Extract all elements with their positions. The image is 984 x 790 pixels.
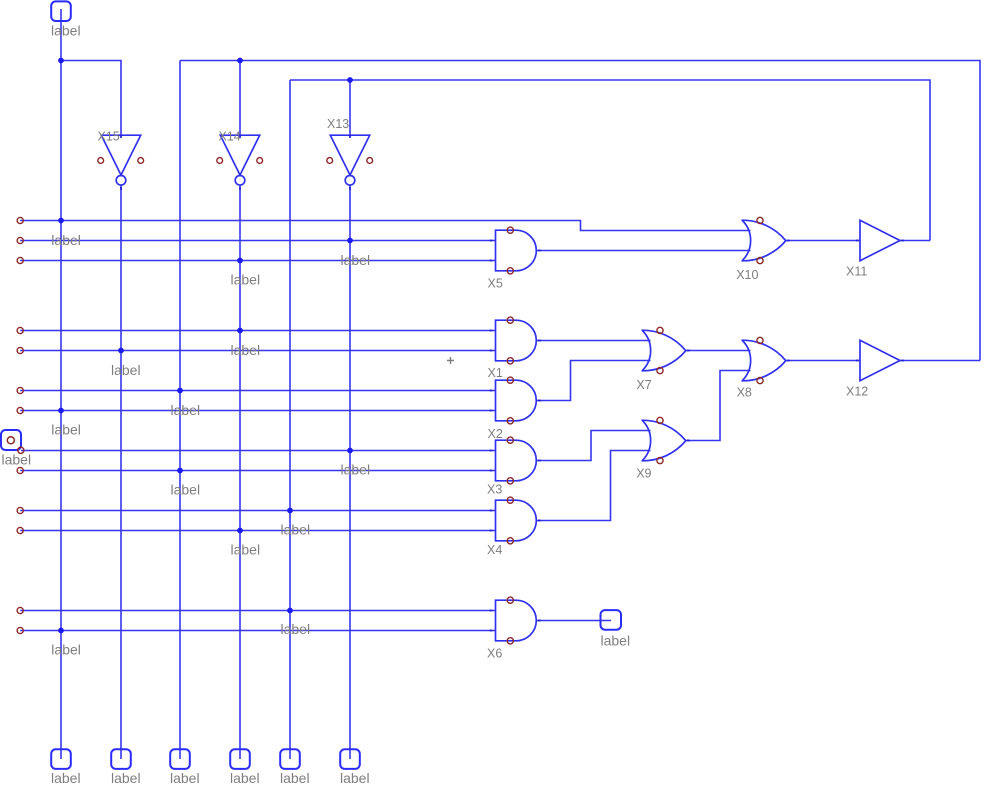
AND gate X3 <box>490 437 541 484</box>
svg-text:label: label <box>230 770 260 786</box>
wire net7 (y=410.5) to X2 input 2 <box>20 410 496 412</box>
svg-text:label: label <box>171 482 201 498</box>
wire X4 output to X9 lower input <box>537 451 651 521</box>
wire column F upper (x=350 into X13) <box>349 80 351 135</box>
AND gate X1 <box>490 317 541 364</box>
wire X5 output to X10 lower input <box>537 250 751 252</box>
junction node (240,530) <box>237 528 243 534</box>
wire second feedback rail (y=80) <box>290 80 930 241</box>
svg-text:label: label <box>231 542 261 558</box>
svg-text:label: label <box>281 522 311 538</box>
svg-text:label: label <box>231 272 261 288</box>
wire net5 (y=350.5) to X1 input 2 <box>20 350 496 352</box>
wire net10 (y=510.5) to X4 input 1 <box>20 510 496 512</box>
wire column B upper (x=121 into X15) <box>61 61 121 136</box>
buffer X11 <box>856 220 904 260</box>
junction node (240,60) <box>237 58 243 64</box>
wire column B lower (X15 output) <box>120 185 122 759</box>
port box top (node in) <box>51 1 71 21</box>
wire net13 (y=630.5) to X6 input 2 <box>20 630 496 632</box>
port box bottom 3 <box>170 749 190 769</box>
inverter X15 <box>98 135 144 190</box>
wire column D upper (x=240 into X14) <box>239 61 241 136</box>
wire net3 (y=260.5) to X5 input 2 <box>20 260 496 262</box>
junction node (121,350) <box>118 348 124 354</box>
junction node (240,330) <box>237 328 243 334</box>
svg-text:label: label <box>280 770 310 786</box>
input port box with pin (net8) <box>1 430 24 453</box>
junction node (290,510) <box>287 508 293 514</box>
AND gate X4 <box>490 497 541 544</box>
wire X9 output to X8 lower input <box>686 371 751 441</box>
wire X10 output to X11 input <box>786 240 860 242</box>
wire net1 (y=220.5) to X10 upper input <box>20 221 750 231</box>
port box bottom 2 <box>111 749 131 769</box>
wire X3 output to X9 upper input <box>537 431 651 461</box>
svg-text:X10: X10 <box>736 268 758 282</box>
svg-text:X9: X9 <box>636 467 651 481</box>
wire X12 output to feedback rail <box>900 360 980 362</box>
svg-text:label: label <box>340 770 370 786</box>
OR gate X7 <box>642 327 690 373</box>
svg-text:X8: X8 <box>737 386 752 400</box>
wire column E (x=290) <box>289 80 291 759</box>
unconnected input pins (left bus ends) <box>17 217 23 633</box>
svg-text:X4: X4 <box>487 543 502 557</box>
wire net8 (y=450.5) to X3 input 1 <box>21 450 496 452</box>
inverter X13 <box>327 135 373 190</box>
wire net4 (y=330.5) to X1 input 1 <box>20 330 496 332</box>
port box bottom 4 <box>230 749 250 769</box>
svg-text:label: label <box>341 252 371 268</box>
svg-text:label: label <box>51 770 81 786</box>
port box bottom 6 <box>340 749 360 769</box>
svg-text:X6: X6 <box>487 647 502 661</box>
svg-text:label: label <box>231 342 261 358</box>
junction node (290,610) <box>287 608 293 614</box>
OR gate X8 <box>742 337 790 383</box>
svg-text:label: label <box>601 633 631 649</box>
svg-text:X14: X14 <box>219 130 241 144</box>
wire X1 output to X7 upper input <box>537 340 651 342</box>
svg-text:label: label <box>51 422 81 438</box>
wire net6 (y=390.5) to X2 input 1 <box>20 390 496 392</box>
svg-text:label: label <box>111 770 141 786</box>
OR gate X9 <box>642 417 690 463</box>
svg-text:label: label <box>51 232 81 248</box>
junction node (350,450) <box>347 448 353 454</box>
svg-text:label: label <box>281 621 311 637</box>
wire column D lower (X14 output) <box>239 185 241 759</box>
svg-text:label: label <box>51 642 81 658</box>
OR gate X10 <box>742 217 790 263</box>
junction node (180,390) <box>177 388 183 394</box>
AND gate X6 <box>490 597 541 644</box>
junction node (180,470) <box>177 468 183 474</box>
wire column C (x=180) <box>179 61 181 760</box>
junction node (350,240) <box>347 238 353 244</box>
wire net9 (y=470.5) to X3 input 2 <box>20 470 496 472</box>
svg-text:X15: X15 <box>98 130 120 144</box>
wire column A (x=61) <box>60 9 62 759</box>
junction node (350,80) <box>347 77 353 83</box>
port box bottom 5 <box>280 749 300 769</box>
svg-text:label: label <box>2 452 32 468</box>
AND gate X2 <box>490 377 541 424</box>
wire X6 output to output port <box>537 620 612 622</box>
wire column F lower (X13 output) <box>349 185 351 759</box>
svg-text:X5: X5 <box>488 277 503 291</box>
wire X7 output to X8 upper input <box>686 350 751 352</box>
wire net12 (y=610.5) to X6 input 1 <box>20 610 496 612</box>
svg-text:label: label <box>111 362 141 378</box>
port box bottom 1 <box>51 749 71 769</box>
wire top feedback rail (y=60.5) <box>180 61 980 361</box>
wire X2 output to X7 lower input <box>537 361 651 401</box>
svg-text:X1: X1 <box>488 366 503 380</box>
junction node (61,630) <box>58 628 64 634</box>
svg-text:X11: X11 <box>846 265 867 279</box>
wire X8 output to X12 input <box>786 360 860 362</box>
svg-text:X13: X13 <box>327 117 349 131</box>
wire net11 (y=530.5) to X4 input 2 <box>20 530 496 532</box>
junction node (61,60) <box>58 58 64 64</box>
svg-text:X3: X3 <box>487 483 502 497</box>
junction node (61,410) <box>58 408 64 414</box>
svg-text:label: label <box>171 402 201 418</box>
junction node (61,220) <box>58 218 64 224</box>
buffer X12 <box>856 340 904 380</box>
svg-text:label: label <box>341 462 371 478</box>
output port box (X6 result) <box>601 610 622 630</box>
inverter X14 <box>217 135 263 190</box>
svg-text:label: label <box>51 23 81 39</box>
svg-text:X12: X12 <box>846 385 868 399</box>
wire net2 (y=240.5) to X5 input 1 <box>20 240 496 242</box>
AND gate X5 <box>490 227 541 274</box>
svg-text:X7: X7 <box>636 378 651 392</box>
origin marker + <box>447 357 454 364</box>
svg-text:X2: X2 <box>488 427 503 441</box>
wire X11 output to feedback rail <box>900 240 930 242</box>
svg-text:label: label <box>170 770 200 786</box>
junction node (240,260) <box>237 258 243 264</box>
